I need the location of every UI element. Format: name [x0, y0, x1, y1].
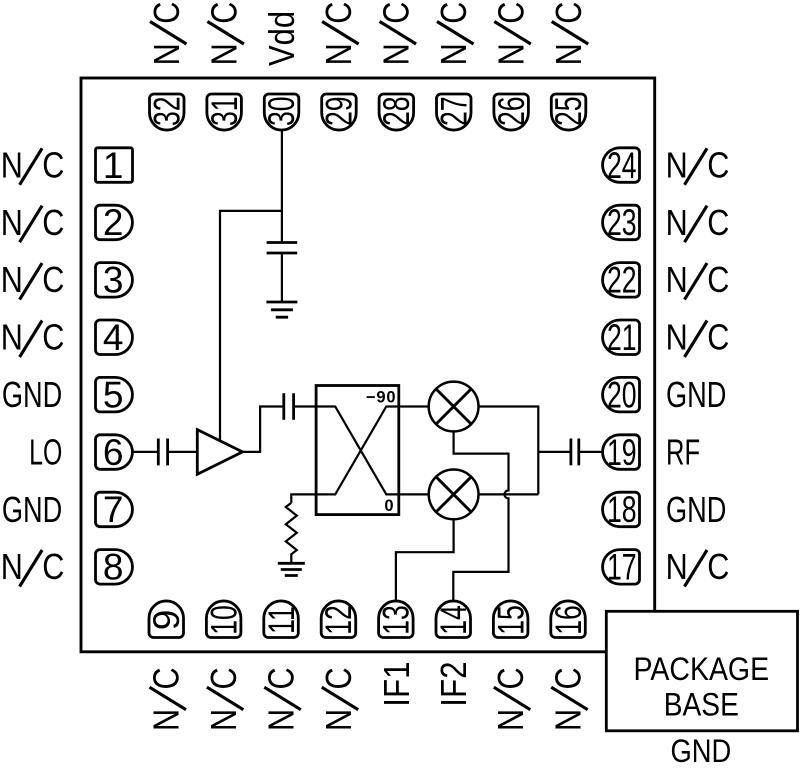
svg-text:N: N [320, 43, 360, 65]
svg-text:C: C [42, 261, 64, 301]
svg-text:C: C [707, 318, 729, 358]
wire hybrid 0 output to mixer M2 [399, 493, 429, 495]
pin 31 (N/C) top side [204, 94, 245, 130]
pin 15 (N/C) bottom side [490, 601, 531, 638]
pin 17 (N/C) right side [603, 546, 640, 587]
svg-text:N: N [377, 43, 417, 65]
svg-text:24: 24 [607, 145, 637, 186]
pin 11 (N/C) bottom side [261, 601, 302, 638]
svg-text:C: C [205, 2, 245, 24]
resistor R1 (hybrid termination) [286, 503, 297, 564]
wire Vdd branch to amplifier U1 supply [220, 211, 282, 441]
svg-text:C: C [435, 2, 475, 24]
svg-text:28: 28 [376, 96, 417, 126]
svg-text:12: 12 [318, 605, 359, 635]
wire mixer M1 output to RF junction [479, 407, 539, 495]
pin 6 (LO) left side [96, 432, 133, 473]
pin 2 (N/C) left side [96, 202, 133, 243]
net label N/C (pin 11) [262, 667, 302, 731]
svg-text:GND: GND [666, 489, 726, 530]
svg-text:Vdd: Vdd [263, 11, 303, 66]
net label N/C (pin 12) [320, 667, 360, 731]
svg-text:0: 0 [384, 497, 393, 515]
svg-text:16: 16 [548, 605, 589, 635]
svg-text:GND: GND [666, 374, 726, 415]
net label N/C (pin 31) [205, 2, 245, 66]
pin 27 (N/C) top side [433, 94, 474, 130]
wire hybrid iso port to resistor R1 [291, 494, 316, 502]
svg-text:C: C [707, 204, 729, 244]
svg-text:N: N [666, 261, 688, 301]
svg-text:4: 4 [103, 317, 124, 358]
pin 4 (N/C) left side [96, 317, 133, 358]
svg-text:C: C [320, 2, 360, 24]
net label N/C (pin 28) [377, 2, 417, 66]
net label N/C (pin 25) [550, 2, 590, 66]
svg-text:27: 27 [433, 96, 474, 126]
svg-text:N: N [666, 548, 688, 588]
svg-text:IF2: IF2 [434, 662, 475, 707]
net label N/C (pin 26) [492, 2, 532, 66]
svg-text:C: C [707, 548, 729, 588]
ground (resistor R1) [278, 563, 305, 575]
PACKAGE BASE box [606, 611, 797, 731]
svg-text:C: C [707, 261, 729, 301]
svg-text:C: C [549, 667, 589, 689]
net label N/C (pin 29) [320, 2, 360, 66]
pin 28 (N/C) top side [376, 94, 417, 130]
svg-text:31: 31 [204, 96, 245, 126]
pin 21 (N/C) right side [603, 317, 640, 358]
svg-text:C: C [42, 318, 64, 358]
svg-text:N: N [320, 709, 360, 731]
svg-text:3: 3 [103, 260, 124, 301]
wire capacitor C4 to pin 19 RF [579, 451, 603, 453]
svg-text:GND: GND [2, 374, 62, 415]
svg-text:N: N [666, 204, 688, 244]
svg-text:C: C [492, 2, 532, 24]
pin 1 (N/C) left side [96, 145, 133, 186]
svg-text:25: 25 [548, 96, 589, 126]
net label N/C (pin 1) [1, 146, 65, 186]
wire LO from pin 6 to coupling capacitor [133, 451, 159, 453]
pin 16 (N/C) bottom side [548, 601, 589, 638]
svg-text:19: 19 [607, 432, 637, 473]
capacitor C2 (LO coupling) [158, 439, 167, 466]
wire mixer M2 to pin 13 IF1 [396, 519, 454, 601]
capacitor C3 (hybrid input coupling) [284, 393, 294, 420]
pin 12 (N/C) bottom side [318, 601, 359, 638]
pin 23 (N/C) right side [603, 202, 640, 243]
svg-text:C: C [377, 2, 417, 24]
svg-text:13: 13 [375, 605, 416, 635]
svg-text:C: C [492, 667, 532, 689]
svg-text:21: 21 [607, 317, 637, 358]
net label N/C (pin 15) [492, 667, 532, 731]
svg-text:N: N [492, 43, 532, 65]
net label N/C (pin 22) [666, 261, 730, 301]
svg-text:5: 5 [103, 374, 124, 415]
svg-text:C: C [148, 2, 188, 24]
svg-text:8: 8 [103, 547, 124, 588]
svg-text:26: 26 [491, 96, 532, 126]
svg-text:C: C [42, 548, 64, 588]
net label N/C (pin 24) [666, 146, 730, 186]
svg-text:N: N [1, 261, 23, 301]
svg-text:BASE: BASE [664, 688, 739, 723]
pin 20 (GND) right side [603, 374, 640, 415]
pin 7 (GND) left side [96, 489, 133, 530]
pin 14 (IF2) bottom side [433, 601, 474, 638]
svg-text:−90: −90 [366, 389, 396, 407]
svg-text:N: N [550, 43, 590, 65]
svg-text:GND: GND [2, 489, 62, 530]
svg-text:IF1: IF1 [377, 662, 418, 707]
svg-text:N: N [492, 709, 532, 731]
pin 5 (GND) left side [96, 374, 133, 415]
wire amplifier output to capacitor C3 [243, 407, 284, 452]
op-amp U1 (LO buffer amplifier) [197, 430, 242, 475]
capacitor C4 (RF coupling) [571, 439, 579, 466]
svg-text:1: 1 [103, 145, 124, 186]
svg-text:10: 10 [203, 605, 244, 635]
mixer M2 (lower, 0 LO) [429, 470, 479, 520]
svg-text:C: C [550, 2, 590, 24]
net label N/C (pin 8) [1, 548, 65, 588]
svg-text:C: C [320, 667, 360, 689]
svg-text:20: 20 [607, 374, 637, 415]
svg-text:2: 2 [103, 202, 124, 243]
net label N/C (pin 32) [148, 2, 188, 66]
mixer M1 (upper, -90 LO) [429, 382, 479, 432]
svg-text:N: N [205, 709, 245, 731]
svg-text:23: 23 [607, 202, 637, 243]
svg-text:N: N [1, 146, 23, 186]
svg-text:18: 18 [607, 489, 637, 530]
IC package outline [81, 78, 655, 652]
svg-text:RF: RF [666, 432, 700, 472]
wire Vdd from pin 30 down to bypass capacitor [281, 130, 283, 243]
90 degree hybrid coupler U2 (box) [316, 386, 399, 515]
svg-text:N: N [147, 709, 187, 731]
net label N/C (pin 2) [1, 204, 65, 244]
svg-text:N: N [549, 709, 589, 731]
svg-text:N: N [205, 43, 245, 65]
pin 18 (GND) right side [603, 489, 640, 530]
pin 13 (IF1) bottom side [375, 601, 416, 638]
svg-text:9: 9 [146, 610, 187, 631]
svg-text:30: 30 [261, 96, 302, 126]
svg-text:17: 17 [607, 546, 637, 587]
svg-text:29: 29 [318, 96, 359, 126]
pin 19 (RF) right side [603, 432, 640, 473]
pin 32 (N/C) top side [146, 94, 187, 130]
svg-text:7: 7 [103, 489, 124, 530]
svg-text:22: 22 [607, 259, 637, 300]
svg-text:32: 32 [146, 96, 187, 126]
svg-text:GND: GND [671, 734, 732, 769]
svg-text:N: N [435, 43, 475, 65]
wire mixer M1 to pin 14 IF2 (with crossover hop) [453, 431, 508, 601]
net label N/C (pin 17) [666, 548, 730, 588]
svg-text:6: 6 [103, 432, 124, 473]
net label N/C (pin 23) [666, 204, 730, 244]
pin 30 (Vdd) top side [261, 94, 302, 130]
ground (Vdd bypass) [266, 302, 297, 317]
svg-text:C: C [42, 204, 64, 244]
hybrid crossover path: input to 0 output [316, 407, 399, 495]
svg-text:11: 11 [261, 606, 302, 634]
net label N/C (pin 3) [1, 261, 65, 301]
net label N/C (pin 27) [435, 2, 475, 66]
pin 29 (N/C) top side [318, 94, 359, 130]
net label N/C (pin 10) [205, 667, 245, 731]
svg-text:LO: LO [29, 432, 62, 473]
svg-text:N: N [1, 318, 23, 358]
net label N/C (pin 9) [147, 667, 187, 731]
pin 8 (N/C) left side [96, 547, 133, 588]
svg-text:N: N [1, 548, 23, 588]
svg-text:N: N [1, 204, 23, 244]
pin 3 (N/C) left side [96, 260, 133, 301]
svg-text:14: 14 [433, 605, 474, 635]
svg-text:N: N [666, 146, 688, 186]
net label N/C (pin 4) [1, 318, 65, 358]
wire capacitor C3 to 90 degree hybrid input [294, 405, 317, 407]
svg-text:N: N [262, 709, 302, 731]
wire hybrid -90 output to mixer M1 [399, 405, 429, 407]
capacitor C1 (Vdd bypass) [267, 243, 298, 302]
pin 26 (N/C) top side [491, 94, 532, 130]
wire RF junction to capacitor C4 [538, 451, 571, 453]
pin 25 (N/C) top side [548, 94, 589, 130]
net label N/C (pin 21) [666, 318, 730, 358]
hybrid crossover path: iso port to -90 output [316, 407, 399, 495]
svg-text:N: N [666, 318, 688, 358]
wire capacitor C2 to amplifier input [168, 451, 198, 453]
svg-text:C: C [147, 667, 187, 689]
svg-text:N: N [148, 43, 188, 65]
wire mixer M2 output to RF junction [479, 493, 539, 495]
net label N/C (pin 16) [549, 667, 589, 731]
pin 24 (N/C) right side [603, 145, 640, 186]
pin 22 (N/C) right side [603, 259, 640, 300]
svg-text:C: C [707, 146, 729, 186]
svg-text:PACKAGE: PACKAGE [634, 653, 770, 688]
svg-text:C: C [205, 667, 245, 689]
svg-text:C: C [262, 667, 302, 689]
pin 9 (N/C) bottom side [146, 601, 187, 638]
svg-text:C: C [42, 146, 64, 186]
svg-text:15: 15 [490, 605, 531, 635]
pin 10 (N/C) bottom side [203, 601, 244, 638]
